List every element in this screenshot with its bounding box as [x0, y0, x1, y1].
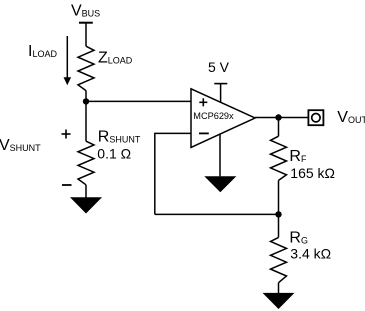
wire RF to node C: [278, 180, 280, 214]
wire op-amp to ground: [219, 134, 221, 176]
wire node B to RF: [278, 118, 280, 137]
ground op-amp: [204, 176, 236, 192]
minus polarity sign: [62, 184, 72, 186]
resistor ZLOAD: [78, 46, 94, 90]
wire node A to op-amp plus input: [86, 100, 191, 102]
plus polarity sign: [62, 130, 71, 139]
wire node A down to RSHUNT: [85, 101, 87, 141]
node A junction dot: [83, 98, 89, 104]
wire VBUS bar to ZLOAD: [85, 23, 87, 47]
node C feedback junction: [275, 211, 281, 217]
wire ZLOAD to node A: [85, 91, 87, 102]
ground RG: [263, 293, 295, 309]
wire RG to ground: [278, 283, 280, 293]
power terminal V_BUS bar: [79, 22, 93, 24]
resistor RG: [271, 237, 287, 282]
resistor RF: [271, 136, 287, 180]
feedback wire vertical: [154, 133, 156, 215]
svg-text:165 kΩ: 165 kΩ: [290, 165, 335, 181]
svg-text:5 V: 5 V: [208, 59, 230, 75]
feedback wire horizontal: [155, 213, 279, 215]
wire feedback to op-amp minus input: [155, 132, 191, 134]
wire RSHUNT to ground: [85, 185, 87, 198]
svg-text:MCP629x: MCP629x: [193, 111, 234, 121]
supply bar 5V: [214, 83, 227, 85]
op-amp U1 MCP629x: [191, 89, 255, 148]
current arrow I_LOAD: [64, 36, 72, 85]
svg-text:3.4 kΩ: 3.4 kΩ: [290, 246, 331, 262]
wire node C to RG: [278, 214, 280, 237]
wire op-amp output: [255, 117, 308, 119]
ground shunt: [70, 197, 102, 213]
wire 5V bar to op-amp: [220, 84, 222, 103]
node B output junction: [275, 114, 281, 120]
svg-text:0.1 Ω: 0.1 Ω: [97, 145, 131, 161]
terminal V_OUT: [308, 110, 323, 125]
resistor RSHUNT: [78, 141, 94, 185]
